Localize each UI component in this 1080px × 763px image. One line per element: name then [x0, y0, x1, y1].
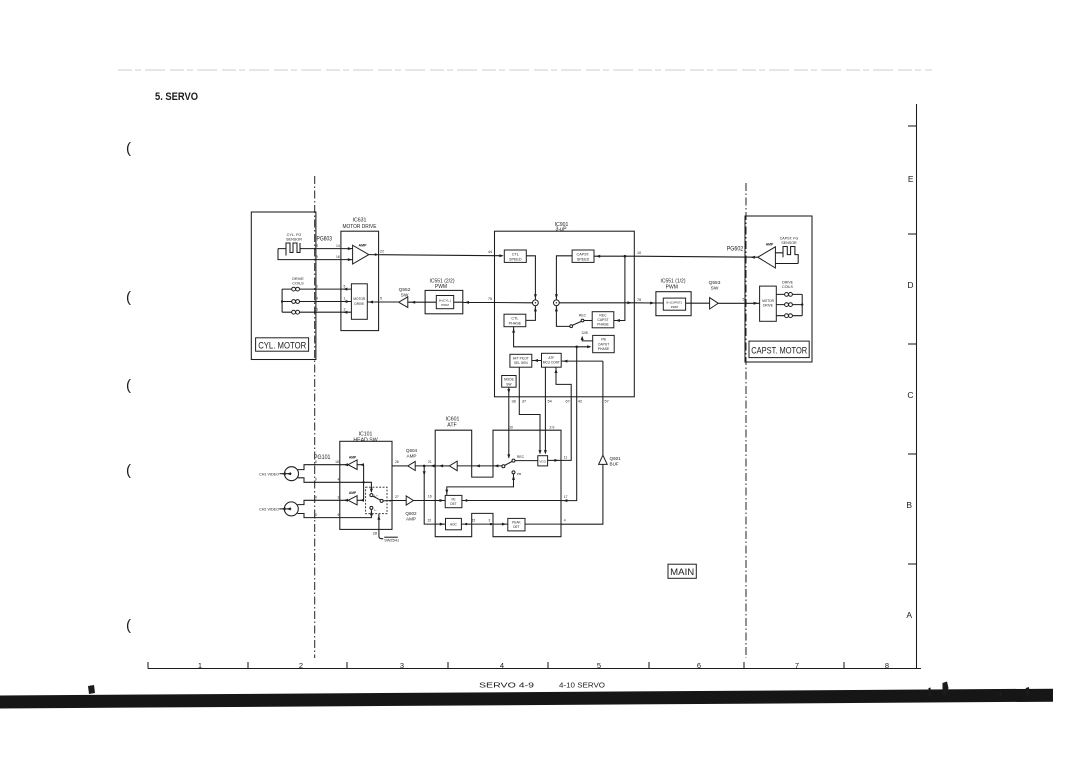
- svg-text:PEAK: PEAK: [512, 521, 521, 525]
- transistor Q552 SW triangle: [399, 297, 408, 308]
- L+ contact: [370, 494, 373, 497]
- svg-text:PB: PB: [517, 472, 521, 476]
- wire: CH1 lower to L+ contact: [298, 478, 372, 492]
- arrowhead below MODE SW: [507, 389, 510, 393]
- arrowhead to coil row 1: [343, 288, 347, 291]
- svg-text:5. SERVO: 5. SERVO: [155, 91, 198, 103]
- wire: IC101 pin 26 to Q604: [392, 465, 408, 467]
- small ink mark right above bar 1: [943, 682, 949, 697]
- svg-text:21: 21: [428, 460, 432, 464]
- MODE SW block: [502, 376, 516, 388]
- arrowhead into amp1 input: [360, 463, 364, 466]
- wire: IC901 pin10 to capstan FG amp: [634, 256, 758, 257]
- svg-text:L-: L-: [374, 508, 377, 512]
- CYL. MOTOR label box: [256, 338, 309, 351]
- svg-text:CYL. FG: CYL. FG: [287, 233, 302, 237]
- wire: switch common to amp input: [457, 465, 502, 467]
- CYL FG sensor label: [286, 233, 302, 242]
- CTL SPEED text: [509, 252, 522, 261]
- wire: common contact to pin 27: [383, 500, 392, 502]
- PWM (capstan) inner box: [663, 298, 685, 310]
- head switch dashed box: [366, 487, 387, 514]
- svg-text:16: 16: [336, 255, 340, 259]
- CAPST SPEED block: [572, 250, 594, 262]
- PG602 pin dot 5: [745, 302, 747, 304]
- switch arm to REC contact: [505, 459, 515, 465]
- arrowhead at pin 11: [554, 459, 558, 462]
- wire: Q602 out to IC601 pin 16: [413, 500, 435, 502]
- arrowhead into CTL SPEED: [499, 254, 503, 257]
- svg-text:(: (: [126, 140, 131, 157]
- capstan drive coil row 3: [776, 314, 802, 318]
- svg-text:CAPST: CAPST: [598, 342, 609, 346]
- transistor Q553 SW triangle: [710, 298, 719, 309]
- svg-text:AMP: AMP: [407, 454, 417, 459]
- svg-text:(: (: [126, 617, 131, 634]
- svg-text:VCO: VCO: [539, 459, 546, 463]
- svg-text:DRIVE: DRIVE: [354, 302, 364, 306]
- junction dot FE DET out: [465, 499, 467, 501]
- MOTOR DRIVE inner block (cyl): [351, 284, 367, 320]
- arrowhead into capstan motor drive: [754, 302, 758, 305]
- CAPST.MOTOR outer box: [745, 216, 812, 362]
- svg-text:67: 67: [565, 399, 569, 403]
- wire: pin 16 into FE DET: [435, 500, 445, 502]
- ruler tick 7: [743, 662, 745, 669]
- arrowhead down into VCO top (pin54): [544, 450, 547, 454]
- wire: inner PWM stubs: [425, 301, 463, 303]
- svg-text:26: 26: [395, 460, 399, 464]
- Q602 AMP labels: [405, 511, 417, 521]
- svg-text:(: (: [126, 462, 131, 479]
- DRIVE COILS label (capstan): [782, 280, 794, 288]
- svg-text:IC631: IC631: [353, 218, 367, 224]
- junction dot on cyl coil bus: [281, 300, 283, 302]
- svg-text:PB: PB: [601, 338, 606, 342]
- PG101 pin dot 9: [314, 481, 316, 483]
- svg-text:5: 5: [316, 307, 318, 311]
- svg-text:Q552: Q552: [399, 287, 411, 293]
- PWM (cyl) inner text: [439, 298, 451, 307]
- connector CH1 VIDEO circle: [280, 467, 299, 481]
- wire: Q553 to capstan motor drive: [718, 302, 759, 304]
- svg-text:MCU CONT: MCU CONT: [543, 361, 560, 365]
- svg-text:2-9: 2-9: [550, 425, 555, 429]
- svg-text:PWM: PWM: [666, 284, 678, 290]
- wire: pin 54 down to VCO: [544, 367, 546, 452]
- wire: pin 22 into AGC: [435, 523, 445, 525]
- wire: pin 57 up into ATF MCU CONT: [561, 361, 603, 455]
- svg-text:17: 17: [564, 495, 568, 499]
- CTL SPEED block: [504, 250, 526, 262]
- svg-text:DET: DET: [513, 525, 519, 529]
- arrowhead on amp2 output: [344, 499, 348, 502]
- svg-text:PWM: PWM: [435, 284, 447, 290]
- FE DET text: [450, 498, 456, 507]
- arrowhead down into VCO top (pin37): [539, 450, 542, 454]
- svg-text:8: 8: [316, 244, 318, 248]
- PWM (cyl) inner box: [436, 296, 453, 309]
- arrowhead into amp2 input: [360, 499, 364, 502]
- svg-text:PWM: PWM: [671, 305, 679, 309]
- svg-text:14: 14: [336, 244, 340, 248]
- svg-text:REC: REC: [579, 314, 587, 318]
- PB CAPST PHASE text: [598, 338, 610, 351]
- arrowhead mid (pin 20): [476, 464, 480, 467]
- wire: head amp 2 input stub: [357, 499, 364, 501]
- wire: CTL SPEED to summing node 1: [526, 256, 535, 300]
- svg-text:C: C: [907, 390, 913, 400]
- svg-text:22: 22: [380, 249, 384, 253]
- CAPST. MOTOR label box: [749, 341, 809, 358]
- svg-text:PG602: PG602: [727, 246, 744, 253]
- op-amp head amp 2 (IC101): [348, 496, 357, 505]
- junction dot on input bus: [362, 481, 364, 483]
- svg-text:SERVO 4-9: SERVO 4-9: [479, 681, 534, 690]
- svg-text:28: 28: [373, 532, 377, 536]
- arrowhead down into FE DET top: [445, 490, 448, 494]
- arrowhead up into summing node 1: [534, 307, 537, 311]
- bottom ruler line: [148, 668, 921, 670]
- switch REC (capstan phase): [570, 319, 592, 328]
- IC551 (1/2) PWM label: [660, 279, 685, 291]
- svg-text:CTL: CTL: [511, 317, 518, 321]
- ruler tick 6: [648, 662, 650, 669]
- wire: amp output to pin 21: [435, 465, 449, 467]
- svg-text:B: B: [906, 500, 912, 510]
- svg-text:HEAD SW: HEAD SW: [353, 437, 377, 443]
- op-amp capstan FG AMP: [758, 247, 776, 268]
- capstan FG sensor symbol: [775, 247, 798, 264]
- svg-text:REC: REC: [599, 314, 607, 318]
- AFT PILOT SEL GEN block: [510, 354, 532, 367]
- arrowhead into FE DET: [440, 499, 444, 502]
- svg-text:ATF: ATF: [447, 423, 456, 429]
- svg-text:5: 5: [743, 298, 745, 302]
- ruler tick 3: [346, 662, 348, 669]
- svg-text:4: 4: [316, 297, 318, 301]
- capstan MOTOR DRIVE block: [760, 286, 777, 321]
- switch arm (head switch): [373, 496, 381, 500]
- right frame tick 2: [908, 233, 917, 235]
- junction dot on capstan coil bus: [801, 303, 803, 305]
- svg-text:9: 9: [315, 478, 317, 482]
- wire: capst FG pin 10 into CAPST SPEED: [594, 255, 634, 257]
- svg-text:PHASE: PHASE: [598, 347, 610, 351]
- capstan MOTOR DRIVE text: [762, 299, 775, 308]
- svg-text:Q553: Q553: [709, 280, 721, 286]
- svg-text:54: 54: [547, 399, 551, 403]
- svg-text:MODE: MODE: [504, 378, 515, 382]
- svg-text:8: 8: [315, 460, 317, 464]
- svg-text:AMP: AMP: [766, 242, 774, 246]
- svg-text:AMP: AMP: [349, 491, 357, 495]
- arrowhead toward pin 76: [627, 301, 631, 304]
- IC901 microprocessor box: [495, 231, 635, 397]
- svg-text:75: 75: [488, 297, 492, 301]
- svg-text:AGC: AGC: [450, 522, 458, 526]
- svg-text:(: (: [126, 377, 131, 394]
- svg-text:22: 22: [428, 518, 432, 522]
- svg-text:SPEED: SPEED: [577, 257, 590, 261]
- arrowhead up into CTL PHASE bottom: [512, 328, 515, 332]
- svg-text:1: 1: [198, 661, 202, 670]
- right frame tick 3: [908, 343, 917, 345]
- svg-text:FE: FE: [451, 498, 455, 502]
- cyl drive coil row 3: [282, 310, 351, 314]
- arrowhead up into summing node 2: [555, 307, 558, 311]
- wire: PEAK DET out to pin 4: [525, 523, 561, 525]
- svg-text:CAPST.: CAPST.: [577, 252, 590, 256]
- arrowhead into AFT PILOT SEL GEN: [534, 359, 538, 362]
- transistor Q552 SW labels: [399, 287, 411, 298]
- ruler tick 8: [843, 662, 845, 669]
- arrowhead into CAPST SPEED right: [596, 255, 600, 258]
- transistor Q602 AMP triangle: [406, 496, 413, 505]
- capstan drive coil row 1: [776, 293, 802, 297]
- arrowhead up into L- contact: [370, 511, 373, 515]
- svg-text:7: 7: [795, 661, 799, 670]
- svg-text:Q604: Q604: [406, 448, 418, 453]
- arrowhead into AGC: [440, 523, 444, 526]
- svg-text:CAPST. MOTOR: CAPST. MOTOR: [751, 346, 807, 357]
- wire: AGC out to PEAK DET: [461, 523, 507, 525]
- arrowhead into pin17 wire: [563, 499, 567, 502]
- junction dot pin3: [490, 523, 492, 525]
- svg-text:DRIVE: DRIVE: [763, 304, 773, 308]
- svg-text:5: 5: [380, 297, 382, 301]
- board boundary dash-dot line right (PG602 line): [745, 183, 747, 658]
- arrowhead into ATF MCU CONT right: [563, 360, 567, 363]
- svg-text:4: 4: [315, 495, 317, 499]
- AFT PILOT SEL GEN text: [513, 357, 529, 366]
- junction dot AGC out: [465, 523, 467, 525]
- PG101 pin dot 4: [314, 499, 316, 501]
- svg-text:SENSOR: SENSOR: [286, 238, 302, 242]
- svg-text:6: 6: [697, 661, 701, 670]
- ruler tick 4: [447, 662, 449, 669]
- IC551 (2/2) box: [425, 290, 463, 313]
- junction dot near pin 27: [389, 500, 391, 502]
- MODE SW text: [504, 378, 515, 387]
- svg-text:PWM: PWM: [441, 303, 449, 307]
- svg-text:AMP: AMP: [349, 455, 357, 459]
- IC551 (1/2) box: [656, 292, 691, 316]
- svg-text:CAPST. FG: CAPST. FG: [780, 236, 799, 240]
- FE DET block: [445, 495, 462, 507]
- PEAK DET text: [512, 521, 521, 530]
- PG603 pin dot 9: [314, 259, 316, 261]
- CAPST SPEED text: [577, 252, 590, 261]
- svg-text:27: 27: [395, 495, 399, 499]
- svg-text:AFT PILOT: AFT PILOT: [513, 357, 529, 361]
- svg-text:COILS: COILS: [782, 285, 793, 289]
- PG101 pin dot 5: [314, 517, 316, 519]
- CH1 connector arrowheads: [281, 472, 291, 475]
- svg-text:76: 76: [637, 298, 641, 302]
- wire: summing node 1 to pin 75: [495, 302, 533, 304]
- PG602 pin dot 10: [745, 256, 747, 258]
- wire: IC901 pin75 to PWM(2/2): [463, 302, 495, 304]
- summing node 2 (capstan): [554, 300, 560, 306]
- wire: switch to pin 28 (SW25Hz): [379, 514, 383, 539]
- svg-text:BUF: BUF: [610, 461, 619, 466]
- CTL PHASE text: [509, 317, 522, 326]
- svg-text:SPEED: SPEED: [509, 257, 522, 261]
- wire: CTL PHASE up to summing node 1: [526, 306, 536, 321]
- wire: REC contact to VCO: [515, 460, 538, 462]
- arrowhead to coil row 2: [343, 300, 347, 303]
- svg-text:CYL. MOTOR: CYL. MOTOR: [258, 340, 306, 351]
- SW25Hz label with overline: [384, 537, 399, 542]
- IC601 ATF label: [446, 417, 460, 429]
- svg-text:2: 2: [299, 661, 303, 670]
- cyl drive coil row 1: [282, 287, 351, 291]
- capstan coil common bus: [801, 294, 803, 315]
- Q601 BUF labels: [610, 456, 622, 466]
- wire: cyl FG sensor to amp upper input: [301, 248, 353, 250]
- transistor Q601 BUF triangle: [599, 455, 608, 464]
- svg-text:44: 44: [488, 250, 492, 254]
- MAIN board label box: [668, 564, 696, 578]
- PG603 pin dot 8: [314, 248, 316, 250]
- svg-text:MOTOR DRIVE: MOTOR DRIVE: [343, 224, 377, 230]
- svg-text:57: 57: [604, 399, 608, 403]
- wire: Q604 to IC601 pin 21: [415, 465, 435, 467]
- PEAK DET block: [508, 518, 525, 531]
- wire: motor drive input from IC631 pin5: [367, 301, 398, 303]
- svg-text:(: (: [126, 289, 131, 306]
- DRIVE COILS label (cyl): [292, 277, 304, 286]
- arrowhead into PEAK DET: [502, 523, 506, 526]
- arrowhead down into summing node 1: [534, 294, 537, 298]
- IC101 HEAD SW label: [353, 432, 377, 444]
- PB contact and wire from FE DET line: [447, 471, 515, 496]
- svg-text:PG603: PG603: [317, 236, 333, 243]
- svg-text:3: 3: [489, 518, 491, 522]
- IC901 label: [555, 222, 569, 233]
- summing node 1 (cyl): [533, 300, 539, 306]
- arrowhead into amp lower input: [348, 258, 352, 261]
- junction dot Q604 line: [423, 465, 426, 468]
- svg-text:4: 4: [500, 661, 504, 670]
- cyl drive coil row 2: [282, 300, 351, 304]
- svg-text:E: E: [908, 174, 914, 184]
- arrowhead into amp upper input: [348, 247, 352, 250]
- svg-text:CH2 VIDEO: CH2 VIDEO: [259, 508, 279, 512]
- wire: IC901 pin76 to PWM(1/2): [634, 302, 663, 304]
- svg-text:DET: DET: [450, 502, 456, 506]
- wire: pin 42 vertical down to IC601 pin 17: [561, 347, 577, 501]
- wire: FE DET out to pin 17: [462, 500, 561, 502]
- right frame tick 5: [908, 563, 917, 565]
- small ink mark right above bar 0: [929, 688, 932, 697]
- svg-text:SW25Hz: SW25Hz: [384, 538, 399, 542]
- transistor Q553 SW labels: [709, 280, 721, 291]
- arrowhead into PB CAPST PHASE left: [587, 345, 591, 348]
- junction dot at amp output: [374, 253, 376, 255]
- arrowhead on amp output: [439, 464, 443, 467]
- REC CAPST PHASE text: [597, 314, 609, 327]
- svg-text:D: D: [907, 280, 913, 290]
- wire: CAPST SPEED out to summing node 2: [556, 256, 572, 300]
- wire: input bus vertical: [363, 465, 365, 501]
- svg-text:SW: SW: [506, 382, 512, 386]
- node 12/B test point: [581, 331, 593, 341]
- wire: head amp 1 input from common vertical: [357, 464, 364, 466]
- svg-text:5: 5: [597, 661, 601, 670]
- ruler tick 5: [547, 662, 549, 669]
- svg-text:CH1 VIDEO: CH1 VIDEO: [259, 472, 279, 476]
- transistor Q604 AMP triangle: [408, 461, 415, 470]
- wire: pin10 branch down to REC CAPST PHASE: [614, 256, 625, 320]
- svg-text:MOTOR: MOTOR: [762, 299, 775, 303]
- svg-text:SEL GEN: SEL GEN: [514, 361, 528, 365]
- svg-text:18: 18: [335, 460, 339, 464]
- svg-text:2: 2: [316, 284, 318, 288]
- svg-text:16: 16: [428, 495, 432, 499]
- IC101 box: [340, 441, 392, 529]
- wire: L- contact to connector CH2 lower: [298, 509, 372, 517]
- svg-text:AMP: AMP: [359, 243, 368, 247]
- small ink mark right above bar 1b: [1000, 690, 1003, 696]
- svg-text:38: 38: [511, 399, 515, 403]
- right frame tick 4: [908, 453, 917, 455]
- arrowhead near switch: [494, 464, 498, 467]
- ruler tick 1: [147, 662, 149, 669]
- CYL FG sensor symbol: [278, 243, 302, 256]
- svg-text:5: 5: [344, 284, 346, 288]
- switch REC/PB common contact: [502, 465, 505, 468]
- svg-text:5: 5: [315, 513, 317, 517]
- arrowhead down into summing node 2: [555, 294, 558, 298]
- L- contact: [370, 506, 373, 509]
- wire: cyl FG sensor lower path to amp lower input: [278, 249, 353, 260]
- svg-text:MAIN: MAIN: [670, 567, 694, 578]
- svg-text:10: 10: [637, 251, 641, 255]
- arrowhead into motor drive (cyl): [369, 301, 373, 304]
- arrowhead down on branch: [423, 471, 426, 475]
- PWM (capstan) inner text: [666, 301, 682, 309]
- op-amp ATF error amp (IC601): [449, 461, 457, 471]
- faint scan separation dotted line (top): [118, 69, 932, 71]
- wire: IC101 pin 27 to Q602: [392, 500, 406, 502]
- IC631 box: [341, 231, 379, 330]
- MOTOR DRIVE inner text (cyl): [353, 297, 366, 306]
- svg-text:8: 8: [885, 661, 889, 670]
- arrowhead down into L+ contact: [370, 489, 373, 493]
- svg-text:SW: SW: [711, 286, 719, 292]
- wire: head amp 2 output to connector CH2: [298, 500, 349, 504]
- PG603 pin dot coil 3: [314, 311, 316, 313]
- svg-text:15: 15: [472, 519, 476, 523]
- arrowhead up into PB contact: [512, 476, 515, 480]
- arrowhead to coil row 3: [343, 311, 347, 314]
- svg-text:5: 5: [337, 513, 339, 517]
- svg-text:8÷(CYL.): 8÷(CYL.): [439, 298, 451, 302]
- svg-text:PHASE: PHASE: [597, 322, 609, 326]
- svg-text:4-10 SERVO: 4-10 SERVO: [559, 681, 605, 690]
- wire: ATF MCU CONT to AFT PILOT SEL GEN: [532, 360, 542, 362]
- CTL PHASE block: [504, 314, 526, 327]
- svg-text:MOTOR: MOTOR: [353, 297, 366, 301]
- svg-text:A: A: [906, 610, 912, 620]
- CH2 connector arrowheads: [281, 507, 291, 510]
- svg-text:12/B: 12/B: [581, 331, 588, 335]
- ATF MCU CONT block: [542, 353, 562, 367]
- svg-text:Q601: Q601: [610, 456, 622, 461]
- right frame border line: [916, 104, 918, 669]
